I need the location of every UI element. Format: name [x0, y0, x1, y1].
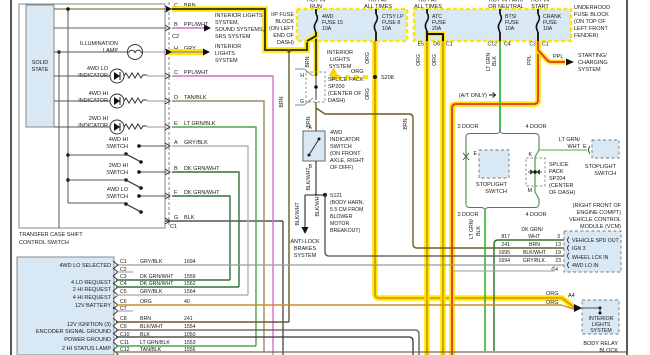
svg-text:4WD: 4WD: [330, 130, 342, 136]
svg-text:MODULE (VCM): MODULE (VCM): [580, 224, 621, 230]
svg-text:SP200: SP200: [328, 84, 345, 90]
svg-text:ORG: ORG: [546, 300, 559, 306]
svg-text:C9: C9: [120, 324, 127, 330]
svg-text:C5: C5: [120, 289, 127, 295]
wire: B row feed inside box: [54, 27, 167, 29]
svg-text:10A: 10A: [382, 26, 392, 32]
svg-text:SYSTEM: SYSTEM: [329, 64, 352, 70]
svg-text:LT GRN/: LT GRN/: [559, 137, 581, 143]
svg-text:UNDERHOOD: UNDERHOOD: [574, 5, 610, 11]
svg-text:3: 3: [557, 234, 560, 240]
encoder motor box: [17, 257, 114, 355]
svg-text:2 HI REQUEST: 2 HI REQUEST: [73, 287, 112, 293]
svg-text:DK GRN/WHT: DK GRN/WHT: [140, 281, 174, 287]
svg-text:ORG: ORG: [416, 54, 422, 66]
svg-text:20A: 20A: [432, 26, 442, 32]
svg-text:STOPLIGHT: STOPLIGHT: [585, 164, 617, 170]
svg-text:BLOCK: BLOCK: [599, 348, 618, 354]
svg-text:S208: S208: [381, 75, 394, 81]
wire: A GRY/BLK vertical: [172, 146, 248, 295]
svg-text:G: G: [174, 215, 178, 221]
wire: D TAN/BLK vertical: [172, 101, 264, 352]
svg-text:ALL TIMES: ALL TIMES: [364, 4, 392, 10]
svg-text:SPLICE: SPLICE: [549, 162, 569, 168]
svg-text:SYSTEM,: SYSTEM,: [215, 20, 240, 26]
svg-text:INTERIOR: INTERIOR: [327, 50, 353, 56]
svg-text:I/P FUSE: I/P FUSE: [271, 12, 294, 18]
svg-text:TAN/BLK: TAN/BLK: [184, 95, 207, 101]
node: lamp row dot: [57, 50, 61, 54]
wire: G BLK vertical: [282, 221, 284, 355]
svg-text:4WD LO IN: 4WD LO IN: [572, 263, 599, 269]
svg-text:241: 241: [184, 316, 193, 322]
svg-text:D6: D6: [433, 42, 440, 48]
wire: PPL branch to starting/charging: [538, 50, 565, 62]
svg-text:10A: 10A: [322, 26, 332, 32]
wire: B DK GRN/WHT vertical: [172, 172, 239, 287]
VCM box: [564, 231, 621, 272]
arrow to interior lights system: [203, 49, 210, 56]
svg-text:DK GRN/WHT: DK GRN/WHT: [184, 190, 220, 196]
svg-text:SWITCH: SWITCH: [106, 144, 128, 150]
svg-text:C: C: [174, 70, 178, 76]
resistor R2: [124, 98, 147, 103]
svg-text:1694: 1694: [498, 258, 510, 264]
svg-text:C6: C6: [120, 299, 127, 305]
wire: 4-door branch: [538, 137, 540, 150]
fuse ATC FUSE 20A: [426, 9, 428, 13]
svg-text:BLOWER: BLOWER: [330, 214, 353, 220]
splice S208: [373, 75, 377, 79]
svg-text:OR NEUTRAL: OR NEUTRAL: [488, 4, 523, 10]
svg-text:H: H: [300, 73, 304, 79]
svg-text:ORG: ORG: [546, 291, 559, 297]
svg-text:12V BATTERY: 12V BATTERY: [75, 303, 112, 309]
svg-text:SYSTEM: SYSTEM: [294, 253, 317, 259]
wire: lamp return vertical x59: [58, 52, 60, 228]
svg-text:BRN: BRN: [140, 316, 151, 322]
svg-text:LIGHTS: LIGHTS: [330, 57, 350, 63]
wire: LT GRN/WHT to stoplight switch (4 door): [539, 149, 587, 151]
svg-text:1554: 1554: [184, 324, 196, 330]
stoplight switch (4 door): [592, 140, 619, 158]
svg-text:BRN: BRN: [529, 242, 540, 248]
svg-text:SYSTEM: SYSTEM: [215, 58, 238, 64]
node: brace bottom 2door/4door: [535, 192, 539, 204]
svg-text:SYSTEM: SYSTEM: [590, 328, 611, 334]
resistor R3: [124, 124, 147, 129]
svg-text:SWITCH: SWITCH: [106, 194, 128, 200]
svg-text:ENGINE COMPT): ENGINE COMPT): [577, 210, 621, 216]
svg-text:A4: A4: [568, 293, 575, 299]
svg-text:C2: C2: [172, 34, 179, 40]
svg-text:BLK/WHT: BLK/WHT: [295, 202, 301, 226]
svg-text:PACK: PACK: [549, 169, 564, 175]
svg-text:1553: 1553: [184, 340, 196, 346]
svg-text:WHT: WHT: [528, 234, 541, 240]
wire: dashed ORG to interior lights: [336, 75, 371, 79]
svg-text:OF DASH): OF DASH): [549, 190, 575, 196]
wire: F DK GRN/WHT vertical: [172, 196, 230, 280]
svg-text:PPL/WHT: PPL/WHT: [184, 70, 209, 76]
svg-text:C1: C1: [542, 42, 549, 48]
svg-text:1564: 1564: [184, 289, 196, 295]
svg-text:BRN: BRN: [403, 118, 409, 129]
svg-text:E5: E5: [418, 42, 424, 48]
wire: BLK/WHT from switch B to S121: [315, 161, 317, 195]
node: bus dot row B feed: [66, 178, 70, 182]
svg-text:SPLICE PACK: SPLICE PACK: [328, 77, 364, 83]
svg-text:1694: 1694: [184, 259, 196, 265]
pin C chevron bold: [166, 6, 172, 12]
svg-text:BRAKES: BRAKES: [294, 246, 317, 252]
svg-text:BLK/WHT: BLK/WHT: [315, 193, 321, 217]
splice S121: [305, 194, 325, 196]
svg-text:SP204: SP204: [549, 176, 566, 182]
wire: C PPL/WHT vertical: [172, 76, 273, 355]
svg-text:4WD HI: 4WD HI: [89, 91, 109, 97]
fuse CTSY LP FUSE 8 10A: [375, 9, 377, 14]
wire: bus vertical x68: [68, 9, 126, 203]
svg-text:C8: C8: [120, 316, 127, 322]
wire: E LT GRN/BLK vertical: [172, 127, 256, 346]
svg-text:SRS SYSTEM: SRS SYSTEM: [215, 34, 251, 40]
arrow to starting/charging system: [566, 59, 574, 66]
svg-text:4 DOOR: 4 DOOR: [525, 212, 546, 218]
svg-text:INTERIOR LIGHTS: INTERIOR LIGHTS: [215, 13, 263, 19]
svg-text:INDICATOR: INDICATOR: [78, 123, 108, 129]
svg-text:(ON FRONT: (ON FRONT: [330, 151, 361, 157]
svg-text:ALL TIMES: ALL TIMES: [414, 4, 442, 10]
svg-text:S121: S121: [330, 193, 342, 199]
fuse BTSI FUSE 10A: [499, 9, 501, 14]
I/P fuse block box: [297, 9, 407, 41]
svg-text:C4: C4: [551, 267, 558, 273]
svg-text:2 DOOR: 2 DOOR: [457, 124, 478, 130]
svg-text:LIGHTS: LIGHTS: [215, 51, 235, 57]
wire: ORG D6 vertical (highlighted): [440, 41, 446, 355]
wire: 2-door branch to stoplight switch: [465, 137, 467, 204]
svg-text:5.5 CM FROM: 5.5 CM FROM: [330, 207, 363, 213]
arrow up to interior lights system: [329, 68, 338, 80]
svg-text:BRN: BRN: [279, 96, 285, 107]
wire: BRN tap to C8 row: [288, 51, 290, 322]
svg-text:4 LO REQUEST: 4 LO REQUEST: [71, 280, 112, 286]
svg-text:E: E: [474, 151, 478, 157]
svg-text:B: B: [174, 22, 178, 28]
svg-text:C3: C3: [529, 42, 536, 48]
svg-text:DASH): DASH): [328, 98, 345, 104]
svg-text:M: M: [528, 188, 532, 194]
solid state box: [26, 5, 54, 127]
svg-text:SYSTEM: SYSTEM: [578, 67, 601, 73]
svg-text:4 DOOR: 4 DOOR: [525, 124, 546, 130]
left page border: [10, 0, 12, 355]
svg-text:HOT IN: HOT IN: [531, 0, 550, 4]
svg-text:19: 19: [555, 250, 561, 256]
svg-text:END OF: END OF: [273, 33, 294, 39]
node: bus dot row A feed: [66, 153, 70, 157]
svg-text:BLK/WHT: BLK/WHT: [306, 167, 312, 191]
svg-text:STARTING/: STARTING/: [578, 53, 607, 59]
wire: C BRN highlighted run to I/P fuse block: [172, 9, 307, 50]
svg-text:LT GRN/: LT GRN/: [469, 218, 475, 239]
svg-text:BLK: BLK: [184, 215, 195, 221]
svg-text:LAMP: LAMP: [103, 48, 118, 54]
svg-text:DK GRN/WHT: DK GRN/WHT: [140, 274, 174, 280]
wire: ORG from CTSY fuse (highlighted) with elbow to A4: [375, 41, 575, 308]
svg-text:IGN 3: IGN 3: [572, 246, 586, 252]
svg-text:DK GRN/WHT: DK GRN/WHT: [184, 166, 220, 172]
svg-text:ENCODER SIGNAL GROUND: ENCODER SIGNAL GROUND: [36, 329, 111, 335]
svg-text:12V IGNITION (3): 12V IGNITION (3): [67, 322, 111, 328]
svg-text:VEHICLE SPD OUT: VEHICLE SPD OUT: [572, 238, 620, 244]
svg-text:WHEEL LCK IN: WHEEL LCK IN: [572, 255, 609, 261]
svg-text:SOUND SYSTEMS,: SOUND SYSTEMS,: [215, 27, 265, 33]
svg-text:BLK: BLK: [492, 56, 498, 66]
splice pack SP204: [535, 150, 539, 157]
svg-text:BLOCK: BLOCK: [275, 19, 294, 25]
wire: BRN from 4WD fuse down to SP200 H (highlighted): [314, 41, 319, 76]
svg-text:A: A: [174, 140, 178, 146]
svg-text:(ON LEFT: (ON LEFT: [269, 26, 295, 32]
svg-text:FENDER): FENDER): [574, 33, 599, 39]
svg-text:POWER GROUND: POWER GROUND: [64, 337, 111, 343]
svg-text:SWITCH: SWITCH: [485, 189, 507, 195]
svg-text:SWITCH: SWITCH: [594, 171, 616, 177]
svg-text:C11: C11: [120, 340, 129, 346]
svg-text:2 DOOR: 2 DOOR: [457, 212, 478, 218]
svg-text:DK GRN/: DK GRN/: [521, 227, 543, 233]
wire: H GRY highlighted to interior lights: [167, 49, 203, 55]
right page border: [626, 0, 628, 355]
svg-text:ORG: ORG: [140, 299, 152, 305]
transfer case shift control switch outer box: [19, 4, 165, 228]
wire: BLK/WHT arrow to anti-lock brakes: [304, 195, 306, 227]
svg-text:HOT AT: HOT AT: [418, 0, 438, 4]
wire: G BLK row: [165, 220, 283, 222]
svg-text:STATE: STATE: [32, 67, 49, 73]
svg-text:(ON TOP OF: (ON TOP OF: [574, 19, 606, 25]
svg-text:MOTOR: MOTOR: [330, 221, 349, 227]
svg-text:4 HI REQUEST: 4 HI REQUEST: [73, 295, 112, 301]
svg-text:D: D: [174, 95, 178, 101]
svg-text:(CENTER: (CENTER: [549, 183, 573, 189]
svg-text:C1: C1: [120, 259, 127, 265]
svg-text:INTERIOR: INTERIOR: [215, 44, 241, 50]
svg-text:INDICATOR: INDICATOR: [330, 137, 360, 143]
svg-text:2WD HI: 2WD HI: [89, 116, 109, 122]
wire: BLK/WHT S121 to VCM wheel lock: [325, 195, 564, 256]
svg-text:E: E: [583, 144, 587, 150]
svg-text:BODY RELAY: BODY RELAY: [583, 341, 618, 347]
svg-text:2WD HI: 2WD HI: [109, 163, 129, 169]
svg-text:1559: 1559: [184, 274, 196, 280]
svg-text:BRN: BRN: [305, 56, 311, 67]
wire: 817 DK GRN/WHT vehicle speed out: [494, 240, 564, 351]
svg-text:GRY/BLK: GRY/BLK: [523, 258, 546, 264]
svg-text:PPL: PPL: [527, 55, 533, 65]
interior lights system box (body relay block): [582, 300, 619, 334]
svg-text:4WD LO: 4WD LO: [107, 187, 129, 193]
svg-text:AXLE, RIGHT: AXLE, RIGHT: [330, 158, 365, 164]
underhood fuse block box: [414, 9, 571, 41]
svg-text:PPL: PPL: [553, 54, 563, 60]
svg-text:B: B: [174, 166, 178, 172]
svg-text:C1: C1: [170, 224, 177, 230]
svg-text:ORG: ORG: [432, 54, 438, 66]
wire: BRN from SP200 G to 4WD indicator switch A: [315, 102, 317, 131]
svg-text:K: K: [529, 152, 533, 158]
arrow into interior lights (A4): [574, 304, 582, 312]
arrow to interior lights/sound/srs: [204, 25, 211, 32]
svg-text:4WD HI: 4WD HI: [109, 137, 129, 143]
svg-text:241: 241: [501, 242, 510, 248]
wire: B PPL/WHT to interior lights: [172, 27, 204, 29]
svg-text:(RIGHT FRONT OF: (RIGHT FRONT OF: [573, 203, 622, 209]
node: bus top dot: [66, 7, 70, 11]
svg-text:4WD LO: 4WD LO: [87, 66, 109, 72]
svg-text:C3: C3: [120, 274, 127, 280]
wire: C row feed inside box: [54, 8, 172, 10]
svg-text:2 HI STATUS LAMP: 2 HI STATUS LAMP: [62, 346, 111, 352]
svg-text:LEFT FRONT: LEFT FRONT: [574, 26, 608, 32]
svg-text:BREAKOUT): BREAKOUT): [330, 228, 361, 234]
wire: 4WD fuse out jog highlighted: [307, 32, 316, 41]
svg-text:C1: C1: [446, 42, 453, 48]
svg-text:(BODY HARN,: (BODY HARN,: [330, 200, 364, 206]
svg-text:(CENTER OF: (CENTER OF: [328, 91, 362, 97]
svg-text:ORG: ORG: [365, 52, 371, 64]
svg-text:10A: 10A: [505, 26, 515, 32]
svg-text:HOT IN: HOT IN: [307, 0, 326, 4]
svg-text:40: 40: [184, 299, 190, 305]
svg-text:GRY/BLK: GRY/BLK: [184, 140, 208, 146]
wire: ATC out split bracket highlighted: [427, 31, 443, 41]
svg-text:BLK/WHT: BLK/WHT: [140, 324, 164, 330]
svg-text:SOLID: SOLID: [32, 60, 49, 66]
svg-text:TRANSFER CASE SHIFT: TRANSFER CASE SHIFT: [19, 232, 83, 238]
svg-text:BLK/WHT: BLK/WHT: [523, 250, 547, 256]
svg-text:ORG: ORG: [365, 88, 371, 100]
wire: LT GRN/BLK from BTSI fuse: [499, 41, 501, 131]
svg-text:C4: C4: [504, 42, 511, 48]
svg-text:ANTI-LOCK: ANTI-LOCK: [290, 239, 320, 245]
wire: 1694 GRY/BLK 4WD LO in: [116, 264, 564, 266]
svg-text:LT GRN/BLK: LT GRN/BLK: [140, 340, 170, 346]
wire: ORG E5 vertical (highlighted): [424, 41, 430, 355]
left connector chevrons and wire labels: [165, 6, 170, 224]
svg-text:C4: C4: [120, 281, 127, 287]
svg-text:E: E: [174, 121, 178, 127]
svg-text:OF DIFF): OF DIFF): [330, 165, 353, 171]
svg-text:10A: 10A: [543, 26, 553, 32]
svg-text:1562: 1562: [184, 281, 196, 287]
svg-text:SWITCH: SWITCH: [106, 170, 128, 176]
splice pack SP200: [295, 69, 313, 76]
connector C2 dashed line: [168, 2, 170, 227]
svg-text:4WD LO SELECTED: 4WD LO SELECTED: [59, 263, 111, 269]
svg-text:C12: C12: [487, 42, 497, 48]
svg-text:(A/T ONLY): (A/T ONLY): [459, 93, 487, 99]
svg-text:13: 13: [555, 242, 561, 248]
svg-text:1695: 1695: [498, 250, 510, 256]
svg-text:ORG: ORG: [351, 69, 364, 75]
svg-text:HOT IN PARK: HOT IN PARK: [489, 0, 524, 4]
svg-text:LT GRN/BLK: LT GRN/BLK: [184, 121, 216, 127]
svg-text:GRY/BLK: GRY/BLK: [140, 289, 163, 295]
svg-text:A: A: [309, 125, 313, 131]
svg-text:STOPLIGHT: STOPLIGHT: [476, 182, 508, 188]
svg-text:BLK: BLK: [476, 226, 482, 236]
svg-text:817: 817: [501, 234, 510, 240]
wire: BRN from G to VCM IGN3: [316, 108, 564, 248]
svg-text:DASH): DASH): [277, 40, 294, 46]
fuse CRANK FUSE 10A: [537, 9, 539, 14]
svg-text:ILLUMINATION: ILLUMINATION: [80, 41, 118, 47]
svg-text:WHT: WHT: [567, 144, 580, 150]
svg-text:CONTROL SWITCH: CONTROL SWITCH: [19, 240, 69, 246]
wire: LT GRN/BLK down to bottom: [484, 211, 486, 351]
svg-text:CHARGING: CHARGING: [578, 60, 608, 66]
wire: PPL from CRANK fuse highlighted: [452, 41, 538, 355]
resistor R1: [124, 73, 147, 78]
lamp L1: [54, 51, 127, 53]
bottom connector chevrons: [113, 261, 118, 355]
svg-text:G: G: [300, 99, 304, 105]
svg-text:START: START: [531, 4, 549, 10]
svg-text:VEHICLE CONTROL: VEHICLE CONTROL: [569, 217, 621, 223]
svg-text:SWITCH: SWITCH: [330, 144, 352, 150]
svg-text:FUSE BLOCK: FUSE BLOCK: [574, 12, 609, 18]
svg-text:HOT AT: HOT AT: [368, 0, 388, 4]
svg-text:GRY/BLK: GRY/BLK: [140, 259, 163, 265]
svg-text:23: 23: [555, 258, 561, 264]
fuse 4WD FUSE 15 10A: [315, 9, 317, 14]
